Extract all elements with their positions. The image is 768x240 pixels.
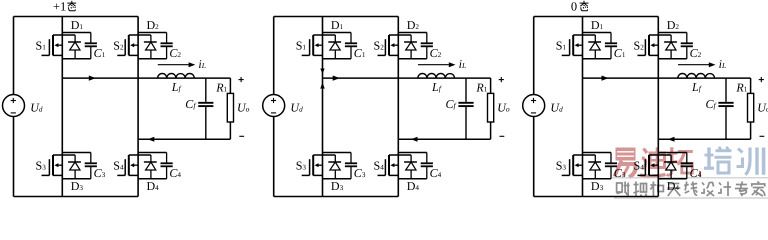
svg-text:0: 0 bbox=[571, 0, 577, 13]
wire load right top bbox=[750, 78, 752, 93]
wire bbox=[398, 178, 427, 180]
wire bbox=[583, 178, 612, 180]
voltage source Ud bbox=[3, 95, 25, 117]
current arrow on return wire bbox=[411, 137, 418, 142]
current arrow on output wire bbox=[89, 76, 96, 81]
wire bbox=[323, 58, 352, 60]
wire bbox=[583, 58, 612, 60]
MOSFET S2 bbox=[117, 35, 138, 55]
wire bbox=[138, 32, 167, 34]
current arrow on return wire bbox=[148, 137, 155, 142]
wire load right top bbox=[229, 78, 231, 93]
plus terminal bbox=[499, 79, 504, 81]
wire bbox=[658, 32, 687, 34]
wire top rail bbox=[274, 16, 399, 18]
MOSFET S4 bbox=[638, 155, 659, 175]
wire left rail bbox=[13, 17, 15, 197]
wire bbox=[658, 58, 687, 60]
wire bbox=[658, 178, 687, 180]
current arrow iL bbox=[678, 64, 710, 66]
resistor R1 bbox=[227, 93, 233, 122]
diode D3 bbox=[583, 155, 602, 179]
minus terminal bbox=[239, 135, 244, 137]
wire bbox=[323, 178, 352, 180]
plus terminal bbox=[759, 79, 764, 81]
diode D4 bbox=[398, 155, 417, 179]
current arrow up into node bbox=[320, 82, 324, 88]
MOSFET S1 bbox=[42, 35, 63, 55]
capacitor C2 bbox=[161, 33, 173, 59]
capacitor C4 bbox=[161, 153, 173, 179]
capacitor C3 bbox=[345, 153, 357, 179]
MOSFET S1 bbox=[562, 35, 583, 55]
wire bbox=[323, 32, 352, 34]
wire bbox=[323, 152, 352, 154]
wire bbox=[398, 152, 427, 154]
diode D2 bbox=[138, 35, 157, 59]
MOSFET S4 bbox=[117, 155, 138, 175]
MOSFET S3 bbox=[562, 155, 583, 175]
wire bbox=[583, 152, 612, 154]
wire bottom rail bbox=[274, 196, 399, 198]
wire load right top bbox=[490, 78, 492, 93]
wire output node to load bbox=[62, 77, 230, 79]
inductor Lf bbox=[678, 74, 715, 79]
wire bbox=[138, 152, 167, 154]
capacitor C1 bbox=[605, 33, 617, 59]
wire return bbox=[138, 138, 230, 140]
MOSFET S2 bbox=[378, 35, 399, 55]
inductor Lf bbox=[418, 74, 455, 79]
wire bbox=[583, 32, 612, 34]
diode D1 bbox=[323, 35, 342, 59]
diode D2 bbox=[658, 35, 677, 59]
diode D4 bbox=[658, 155, 677, 179]
wire left leg bbox=[61, 17, 63, 197]
wire bbox=[62, 32, 91, 34]
inductor Lf bbox=[158, 74, 195, 79]
current arrow on output wire bbox=[602, 76, 609, 81]
wire bbox=[138, 178, 167, 180]
resistor R1 bbox=[488, 93, 494, 122]
wire left rail bbox=[273, 17, 275, 197]
wire bbox=[62, 58, 91, 60]
diode D3 bbox=[62, 155, 81, 179]
svg-text:+1: +1 bbox=[53, 0, 66, 13]
capacitor C1 bbox=[345, 33, 357, 59]
capacitor C4 bbox=[421, 153, 433, 179]
MOSFET S1 bbox=[302, 35, 323, 55]
wire bbox=[62, 178, 91, 180]
MOSFET S3 bbox=[42, 155, 63, 175]
capacitor C4 bbox=[681, 153, 693, 179]
current arrow on return wire bbox=[668, 137, 675, 142]
minus terminal bbox=[500, 135, 505, 137]
capacitor C1 bbox=[85, 33, 97, 59]
wire return bbox=[658, 138, 750, 140]
wire left rail bbox=[533, 17, 535, 197]
wire bottom rail bbox=[14, 196, 139, 198]
MOSFET S3 bbox=[302, 155, 323, 175]
minus terminal bbox=[760, 135, 765, 137]
capacitor C3 bbox=[85, 153, 97, 179]
voltage source Ud bbox=[523, 95, 545, 117]
watermark underline bbox=[612, 177, 768, 179]
wire bbox=[398, 32, 427, 34]
wire top rail bbox=[534, 16, 659, 18]
resistor R1 bbox=[748, 93, 754, 122]
capacitor C2 bbox=[681, 33, 693, 59]
MOSFET S4 bbox=[378, 155, 399, 175]
capacitor C3 bbox=[605, 153, 617, 179]
current arrow into node bbox=[320, 69, 324, 74]
watermark slogan text bbox=[617, 182, 765, 197]
watermark logo text bbox=[615, 147, 764, 177]
diode D3 bbox=[323, 155, 342, 179]
capacitor Cf bbox=[198, 78, 213, 139]
current arrow iL bbox=[158, 64, 190, 66]
wire output node to load bbox=[583, 77, 751, 79]
current arrow iL bbox=[418, 64, 450, 66]
capacitor C2 bbox=[421, 33, 433, 59]
capacitor Cf bbox=[458, 78, 473, 139]
MOSFET S2 bbox=[638, 35, 659, 55]
wire bbox=[138, 58, 167, 60]
diode D4 bbox=[138, 155, 157, 179]
plus terminal bbox=[239, 79, 244, 81]
wire load right bottom bbox=[750, 122, 752, 139]
current arrow on output wire bbox=[333, 76, 340, 81]
diode D2 bbox=[398, 35, 417, 59]
wire return bbox=[398, 138, 490, 140]
wire left leg bbox=[582, 17, 584, 197]
wire bbox=[62, 152, 91, 154]
diode D1 bbox=[62, 35, 81, 59]
wire bbox=[658, 152, 687, 154]
wire left leg bbox=[322, 17, 324, 197]
capacitor Cf bbox=[718, 78, 733, 139]
wire top rail bbox=[14, 16, 139, 18]
wire right leg bbox=[397, 17, 399, 197]
wire right leg bbox=[137, 17, 139, 197]
voltage source Ud bbox=[263, 95, 285, 117]
wire right leg bbox=[657, 17, 659, 197]
diode D1 bbox=[583, 35, 602, 59]
wire bbox=[398, 58, 427, 60]
wire output node to load bbox=[323, 77, 491, 79]
wire bottom rail bbox=[534, 196, 659, 198]
wire load right bottom bbox=[490, 122, 492, 139]
wire load right bottom bbox=[229, 122, 231, 139]
